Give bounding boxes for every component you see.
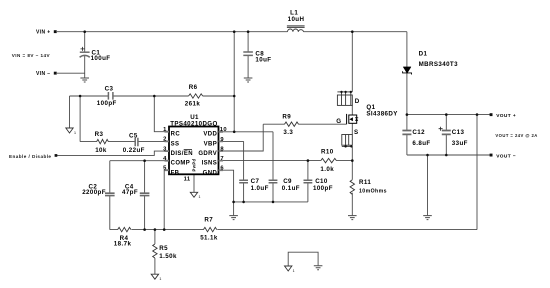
svg-text:COMP: COMP <box>171 161 191 167</box>
net-tie power ground <box>314 266 323 270</box>
wire top rail left of L1 <box>57 31 288 33</box>
junction D1 cathode on VOUT+ rail <box>406 113 409 116</box>
wire Q1 drain to channel <box>351 105 353 115</box>
svg-text:100pF: 100pF <box>313 185 333 192</box>
wire diode branch vertical <box>406 32 408 115</box>
svg-text:4: 4 <box>163 156 167 162</box>
svg-text:0.1uF: 0.1uF <box>282 185 300 192</box>
svg-text:RC: RC <box>171 132 181 138</box>
diode D1 <box>403 67 411 73</box>
wire top rail right of L1 <box>304 31 407 33</box>
capacitor C3 <box>108 92 113 100</box>
wire C7 vertical <box>243 141 245 202</box>
wire bypass ground rail <box>234 201 308 203</box>
pin names U1 <box>171 132 193 177</box>
svg-text:R11: R11 <box>359 179 371 186</box>
ground below C8 <box>244 78 253 82</box>
wire RC pin drop <box>154 96 164 132</box>
svg-text:VIN +: VIN + <box>36 30 51 36</box>
junction C13 top on VOUT+ rail <box>445 113 448 116</box>
capacitor C2 <box>105 193 115 195</box>
inductor L1 <box>287 26 305 32</box>
junction C8 top on input rail <box>247 30 250 33</box>
svg-text:C5: C5 <box>129 132 138 139</box>
svg-text:1: 1 <box>74 131 76 135</box>
wire COMP pin horizontal <box>110 160 165 162</box>
svg-text:VIN = 8V − 14V: VIN = 8V − 14V <box>12 53 51 58</box>
terminal VOUT- <box>490 154 493 157</box>
svg-text:10uF: 10uF <box>255 57 271 64</box>
resistor R6 <box>189 94 203 98</box>
svg-text:10mOhms: 10mOhms <box>359 188 387 194</box>
svg-text:VBP: VBP <box>204 141 218 147</box>
svg-text:FB: FB <box>171 170 180 176</box>
junction R6 to VDD vertical <box>233 95 236 98</box>
svg-text:8: 8 <box>220 147 224 153</box>
svg-text:C12: C12 <box>412 129 425 136</box>
svg-text:51.1k: 51.1k <box>200 234 218 241</box>
wire VIN- to C1 <box>57 72 85 74</box>
wire R11 to ground <box>351 193 353 216</box>
transistor Q1 source pin group <box>342 135 353 147</box>
svg-text:7: 7 <box>220 156 224 162</box>
junction ISNS wire at Q1 source <box>351 159 354 162</box>
capacitor C4 <box>140 193 150 195</box>
wire R5 vertical <box>154 230 156 275</box>
pin stubs left <box>165 132 224 171</box>
ground below bypass rail <box>229 216 238 220</box>
svg-text:1.0k: 1.0k <box>320 166 334 173</box>
svg-text:D: D <box>355 98 360 105</box>
resistor R3 <box>97 139 109 143</box>
svg-text:C7: C7 <box>251 178 260 185</box>
svg-text:5: 5 <box>163 166 167 172</box>
svg-text:3.3: 3.3 <box>283 129 293 136</box>
resistor R11 <box>350 180 354 195</box>
wire RC node horizontal <box>70 95 235 97</box>
svg-text:10: 10 <box>220 127 227 133</box>
wire stem to analog ground at C3 <box>69 96 71 128</box>
junction R5 top on FB run <box>154 228 157 231</box>
wire ISNS run <box>219 160 353 162</box>
wire thermal pad stem <box>193 174 195 192</box>
svg-text:S: S <box>354 129 359 136</box>
svg-text:R10: R10 <box>321 149 334 156</box>
svg-text:10k: 10k <box>95 147 107 154</box>
wire GDRV pin riser <box>219 124 264 151</box>
svg-text:33uF: 33uF <box>452 140 468 147</box>
ground below C1 <box>80 78 89 82</box>
wire C9 vertical <box>272 132 274 202</box>
wire FB pin drop <box>164 170 169 229</box>
svg-text:GDRV: GDRV <box>198 151 217 157</box>
wire output ground drop <box>427 155 429 215</box>
junction GND stem on ground rail <box>232 201 235 204</box>
svg-text:Enable / Disable: Enable / Disable <box>9 154 51 159</box>
analog ground below R5 <box>151 274 161 281</box>
svg-text:1: 1 <box>159 277 161 281</box>
net-tie analog ground <box>285 266 295 273</box>
wire VDD pin to C9 <box>219 131 274 133</box>
svg-text:47pF: 47pF <box>122 189 138 196</box>
terminal Enable/Disable <box>55 154 58 157</box>
wire R3 C5 to SS pin <box>80 141 164 143</box>
wire C2 vertical <box>109 161 111 230</box>
wire R3 branch vertical <box>79 96 81 142</box>
resistor R7 <box>203 227 216 231</box>
svg-text:ISNS: ISNS <box>202 161 218 167</box>
wire VOUT+ rail <box>407 114 490 116</box>
svg-text:G: G <box>336 118 341 125</box>
svg-text:18.7k: 18.7k <box>114 240 132 247</box>
junction ground drop on VOUT- rail <box>426 154 429 157</box>
junction Q1 drain on switch rail <box>351 30 354 33</box>
capacitor C7 <box>239 180 248 183</box>
wire VOUT riser <box>476 115 478 230</box>
ground below output rail <box>423 216 432 220</box>
svg-text:SS: SS <box>171 141 180 147</box>
junction C9 bottom on ground rail <box>272 201 275 204</box>
pin numbers U1 <box>163 127 167 172</box>
terminal VIN- <box>54 72 57 75</box>
svg-text:2200pF: 2200pF <box>82 189 106 196</box>
svg-text:6.8uF: 6.8uF <box>412 140 430 147</box>
junction C4 top on COMP wire <box>143 159 146 162</box>
terminal VOUT+ <box>490 113 493 116</box>
capacitor C9 <box>269 180 278 183</box>
junction C10 top on ISNS wire <box>307 159 310 162</box>
svg-text:VDD: VDD <box>203 132 217 138</box>
svg-text:1.50k: 1.50k <box>159 253 177 260</box>
wire VOUT- rail <box>407 154 490 156</box>
wire net-tie bridge <box>288 252 318 266</box>
wire C4 vertical <box>144 161 146 230</box>
svg-text:1: 1 <box>199 195 201 199</box>
wire C1 vertical <box>84 32 86 78</box>
svg-text:R7: R7 <box>204 217 213 224</box>
wire C12 vertical <box>406 115 408 155</box>
resistor R5 <box>153 244 157 258</box>
svg-text:SI4386DY: SI4386DY <box>366 110 398 117</box>
svg-text:GND: GND <box>203 170 218 176</box>
capacitor C12 <box>402 131 411 135</box>
wire Q1 drain riser <box>351 32 353 92</box>
svg-text:261k: 261k <box>185 100 201 107</box>
svg-text:1: 1 <box>293 269 295 273</box>
junction VDD branch on input rail <box>233 30 236 33</box>
junction VDD pin wire <box>233 131 236 134</box>
junction FB pin drop on FB run <box>163 228 166 231</box>
junction C1 top on input rail <box>83 30 86 33</box>
wire Q1 channel to source box <box>351 123 353 134</box>
wire C13 vertical <box>445 115 447 155</box>
svg-text:TPS40210DGQ: TPS40210DGQ <box>170 120 218 127</box>
wire Q1 source to R11 <box>351 146 353 179</box>
wire feedback bottom run <box>110 229 477 231</box>
svg-text:0.22uF: 0.22uF <box>123 147 145 154</box>
svg-text:R9: R9 <box>282 114 291 121</box>
svg-text:VOUT +: VOUT + <box>496 113 516 119</box>
resistor R10 <box>321 158 337 162</box>
svg-text:PwPd: PwPd <box>192 158 197 171</box>
wire bypass ground stem <box>233 202 235 215</box>
wire enable to DIS/EN pin <box>57 151 165 155</box>
svg-text:100uF: 100uF <box>91 55 111 62</box>
svg-text:VOUT = 24V @ 2A: VOUT = 24V @ 2A <box>495 133 537 138</box>
capacitor C13 <box>442 131 451 135</box>
svg-text:3: 3 <box>163 146 167 152</box>
svg-text:1.0uF: 1.0uF <box>251 185 269 192</box>
transistor Q1 channel symbol <box>347 114 357 124</box>
svg-text:10uH: 10uH <box>288 16 305 23</box>
svg-text:MBRS340T3: MBRS340T3 <box>419 61 459 68</box>
capacitor C8 <box>243 52 253 55</box>
wire gate drive run <box>263 123 346 125</box>
wire VBP pin to C7 <box>219 140 244 142</box>
wire C8 vertical <box>247 32 249 78</box>
ground below R11 <box>348 216 357 220</box>
svg-text:D1: D1 <box>419 51 428 58</box>
svg-text:DIS/EN: DIS/EN <box>171 151 193 157</box>
svg-text:100pF: 100pF <box>97 100 117 107</box>
junction C7 bottom on ground rail <box>242 201 245 204</box>
svg-text:R3: R3 <box>95 131 104 138</box>
analog ground near C3 <box>66 128 76 135</box>
svg-text:C9: C9 <box>283 178 292 185</box>
IC U1 TPS40210DGQ <box>169 127 219 175</box>
junction feedback riser on VOUT+ rail <box>476 113 479 116</box>
svg-text:R6: R6 <box>189 84 198 91</box>
capacitor C1 <box>80 52 90 57</box>
svg-text:1: 1 <box>163 127 167 133</box>
svg-text:R5: R5 <box>159 245 168 252</box>
wire VDD vertical from input rail <box>233 32 235 132</box>
transistor Q1 drain pin group <box>337 92 352 106</box>
junction RC pin drop on RC node <box>153 95 156 98</box>
capacitor C10 <box>304 180 313 183</box>
svg-text:VOUT −: VOUT − <box>496 154 516 160</box>
junction C4 bottom on FB run <box>143 228 146 231</box>
junction R3 branch on RC node <box>79 95 82 98</box>
resistor R9 <box>285 122 299 126</box>
wire C10 vertical <box>307 161 309 202</box>
svg-text:C10: C10 <box>315 178 328 185</box>
svg-text:VIN −: VIN − <box>36 71 51 77</box>
junction C13 bottom on VOUT- rail <box>445 154 448 157</box>
svg-text:2: 2 <box>163 137 167 143</box>
svg-text:C13: C13 <box>452 129 465 136</box>
resistor R4 <box>118 227 131 231</box>
svg-text:6: 6 <box>220 166 224 172</box>
svg-text:9: 9 <box>220 137 224 143</box>
analog ground below pad <box>190 192 200 199</box>
terminal VIN+ <box>54 30 57 33</box>
svg-text:11: 11 <box>184 176 191 182</box>
svg-text:C3: C3 <box>105 85 114 92</box>
capacitor C5 <box>135 138 138 146</box>
wire GND pin drop <box>219 170 234 202</box>
